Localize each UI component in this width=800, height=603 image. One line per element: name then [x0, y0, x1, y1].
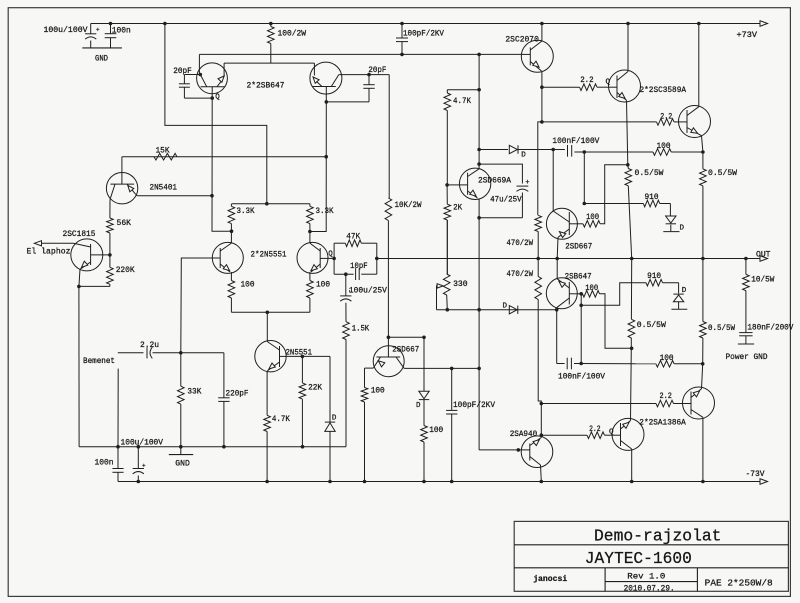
transistor Q2 2SB647 right: [310, 62, 342, 94]
svg-text:330: 330: [453, 280, 468, 289]
svg-text:2*2N5551: 2*2N5551: [251, 249, 287, 259]
wire input stub to gnd rail: [117, 369, 119, 447]
svg-text:+: +: [142, 463, 146, 470]
svg-text:Q: Q: [215, 93, 220, 101]
svg-text:910: 910: [647, 272, 661, 281]
svg-text:2.2: 2.2: [589, 425, 601, 434]
svg-text:56K: 56K: [117, 219, 132, 228]
svg-text:1.5K: 1.5K: [352, 325, 370, 334]
title block frame: [514, 521, 788, 591]
wire bias drop to 910 upper: [583, 152, 585, 204]
capacitor 100nF/100V upper: [553, 149, 565, 151]
svg-text:100pF/2KV: 100pF/2KV: [403, 29, 444, 39]
svg-text:470/2W: 470/2W: [507, 238, 534, 248]
resistor 22K: [301, 356, 303, 383]
svg-text:Q: Q: [606, 79, 611, 87]
svg-text:D: D: [682, 287, 687, 295]
OUT arrow: [760, 256, 768, 262]
diode D mid clamp: [423, 337, 425, 391]
resistor 0.5/5W upper-left: [627, 165, 630, 169]
resistor 33K: [180, 353, 182, 386]
trimmer 330: [446, 220, 448, 274]
wire emitter 2SC1815 to gnd rail: [79, 285, 110, 287]
wire bias mid y309: [437, 309, 557, 311]
svg-text:D: D: [416, 402, 421, 410]
wire -73V rail: [118, 481, 761, 483]
svg-text:100u/100V: 100u/100V: [44, 25, 88, 35]
capacitor 100pF/2KV snubber top: [400, 22, 404, 26]
svg-text:PAE 2*250W/8: PAE 2*250W/8: [705, 578, 773, 589]
transistor 2SC2070: [521, 40, 553, 72]
svg-text:Rev 1.0: Rev 1.0: [627, 572, 665, 582]
svg-text:2SA940: 2SA940: [510, 430, 538, 439]
svg-text:100n: 100n: [95, 459, 114, 468]
resistor 100 LTP left emitter: [230, 272, 232, 281]
svg-text:100nF/100V: 100nF/100V: [552, 136, 599, 146]
capacitor 100nF/100V lower: [556, 310, 558, 364]
wire Q2 base drop to LTP right collector: [310, 102, 326, 232]
transistor 2SC1815: [71, 239, 103, 271]
svg-text:20pF: 20pF: [173, 67, 192, 76]
wire driver base y86.7 + resistor 2.2: [542, 86, 580, 88]
svg-text:D: D: [521, 152, 526, 160]
capacitor 2.2u input coupling: [146, 347, 148, 358]
svg-text:2SB647: 2SB647: [565, 272, 592, 281]
capacitor 100pF/2KV lower: [451, 368, 453, 410]
svg-text:2SD667: 2SD667: [392, 345, 419, 354]
svg-text:100: 100: [241, 281, 255, 290]
svg-text:100pF/2KV: 100pF/2KV: [453, 400, 495, 410]
resistor 4.7K VAS emitter: [266, 372, 268, 416]
diode D bias top: [477, 148, 481, 152]
svg-text:100: 100: [316, 281, 330, 290]
transistor 2N5401: [106, 173, 137, 204]
svg-text:D: D: [680, 225, 685, 233]
resistor 4.7K bias top: [447, 89, 479, 91]
resistor 910 lower: [646, 279, 663, 286]
svg-text:OUT: OUT: [756, 251, 771, 260]
svg-text:2SC1815: 2SC1815: [63, 230, 96, 239]
svg-text:100u/100V: 100u/100V: [121, 437, 164, 447]
wire collector bus y54: [199, 53, 521, 55]
wire main bias column: [478, 54, 480, 168]
svg-text:4.7K: 4.7K: [453, 97, 471, 106]
wire VAS base: [286, 355, 330, 357]
svg-text:JAYTEC-1600: JAYTEC-1600: [585, 549, 692, 568]
svg-text:+: +: [96, 27, 100, 34]
svg-text:2.2: 2.2: [580, 76, 594, 85]
transistor Q4 2N5551 right: [297, 242, 328, 273]
svg-text:3.3K: 3.3K: [237, 207, 255, 216]
svg-text:10/5W: 10/5W: [751, 274, 774, 284]
svg-text:D: D: [332, 415, 337, 423]
svg-text:4.7K: 4.7K: [272, 415, 290, 424]
svg-text:Q: Q: [328, 251, 333, 259]
wire emitter drop 2SC2070: [541, 87, 543, 122]
svg-text:15K: 15K: [156, 147, 170, 156]
ground GND signal: [180, 447, 182, 455]
wire feedback 15K rail: [122, 156, 326, 158]
svg-text:janocsi: janocsi: [533, 574, 567, 584]
resistor 2K: [446, 185, 448, 204]
resistor 100 bottom-right emitter: [581, 363, 656, 365]
transistor 2N5551 VAS: [255, 341, 286, 372]
svg-text:Power GND: Power GND: [726, 353, 768, 362]
resistor 100 LTP right emitter: [309, 272, 311, 281]
svg-text:100: 100: [371, 387, 385, 396]
capacitor 10pF: [334, 273, 354, 275]
+73V arrow: [760, 21, 768, 27]
trimmer wiper arrow: [437, 284, 443, 288]
svg-text:100: 100: [429, 426, 443, 435]
-73V arrow: [760, 479, 768, 485]
capacitor 100u/25V: [345, 274, 347, 296]
svg-text:0.5/5W: 0.5/5W: [708, 323, 735, 333]
transistor Q1 2SB647 left: [197, 63, 228, 94]
wire input open end: [118, 352, 144, 354]
svg-text:2SC2070: 2SC2070: [505, 36, 539, 45]
diode D VAS clamp: [329, 356, 331, 422]
svg-text:100nF/100V: 100nF/100V: [558, 371, 605, 381]
svg-text:33K: 33K: [187, 388, 201, 397]
capacitor 180nF/200V zobel: [745, 291, 747, 333]
svg-text:GND: GND: [95, 55, 108, 64]
wire base riser to LTP: [181, 258, 213, 353]
resistor 0.5/5W lower-left: [630, 259, 632, 320]
resistor 100 lower driver emitter: [364, 368, 366, 387]
resistor 220K: [109, 255, 111, 267]
resistor 10/5W output zobel: [745, 259, 747, 275]
wire emitter link y62.6: [224, 62, 314, 64]
svg-text:470/2W: 470/2W: [507, 269, 534, 279]
resistor 910 upper: [584, 203, 643, 205]
svg-text:Demo-rajzolat: Demo-rajzolat: [594, 526, 722, 545]
svg-text:0.5/5W: 0.5/5W: [708, 168, 737, 178]
svg-text:2.2u: 2.2u: [140, 341, 159, 350]
svg-text:100: 100: [585, 284, 598, 293]
transistor 2SA1386A right: [683, 387, 715, 419]
svg-text:2SD669A: 2SD669A: [478, 176, 511, 185]
wire lower driver collector: [404, 367, 479, 369]
wire top-left feed: [163, 22, 167, 26]
transistor 2SD667 lower driver: [373, 346, 404, 377]
capacitor 100n bottom: [117, 447, 119, 469]
diode D thermal lower: [678, 283, 680, 294]
resistor 100 upper driver collector: [578, 223, 584, 225]
resistor 3.3K right: [309, 204, 311, 207]
resistor 100 top-right emitter: [653, 149, 671, 156]
svg-text:2010.07.29.: 2010.07.29.: [624, 584, 675, 593]
wire OUT rail: [377, 258, 761, 260]
svg-text:100/2W: 100/2W: [278, 28, 307, 38]
svg-text:100n: 100n: [112, 27, 131, 36]
svg-text:0.5/5W: 0.5/5W: [635, 168, 664, 178]
resistor 0.5/5W upper-right: [702, 152, 704, 169]
svg-text:-73V: -73V: [746, 470, 765, 479]
svg-text:Bemenet: Bemenet: [83, 357, 115, 366]
svg-text:20pF: 20pF: [368, 66, 386, 75]
svg-text:2*2SC3589A: 2*2SC3589A: [640, 85, 687, 95]
wire lower output base y403 + resistor 2.2: [541, 403, 656, 405]
transistor Q 2SC3589A left: [609, 70, 641, 102]
svg-text:2*2SA1386A: 2*2SA1386A: [639, 418, 686, 428]
svg-text:2.2: 2.2: [660, 392, 672, 401]
svg-text:2N5401: 2N5401: [150, 184, 178, 193]
capacitor 100u/100V bottom: [137, 447, 139, 469]
svg-text:180nF/200V: 180nF/200V: [747, 323, 793, 333]
svg-text:10pF: 10pF: [350, 262, 368, 271]
svg-text:2*2SB647: 2*2SB647: [247, 80, 285, 90]
wire 3.3K top link: [232, 203, 310, 205]
svg-text:100u/25V: 100u/25V: [349, 285, 387, 295]
resistor 470/2W upper: [538, 122, 542, 215]
resistor 0.5/5W lower-right: [702, 259, 704, 322]
wire to El laphoz with arrow: [41, 242, 74, 244]
resistor 15K: [154, 153, 177, 160]
svg-text:22K: 22K: [308, 384, 322, 393]
ground GND top-left: [82, 47, 122, 49]
diode D mid bias: [509, 306, 517, 314]
svg-text:10K/2W: 10K/2W: [395, 200, 422, 210]
wire Q1 base drop to LTP left collector: [212, 98, 232, 231]
svg-text:GND: GND: [175, 459, 190, 468]
svg-text:47u/25V: 47u/25V: [490, 194, 522, 204]
transistor 2SD667 upper output driver: [546, 208, 577, 239]
svg-text:220K: 220K: [116, 266, 135, 275]
transistor Q3 2N5551 left: [212, 242, 243, 273]
resistor 100 lower driver collector: [579, 292, 583, 296]
capacitor 100n input filter: [109, 22, 113, 26]
capacitor 20pF left: [184, 74, 200, 76]
svg-text:100: 100: [586, 213, 599, 222]
capacitor 100u/100V input filter: [90, 24, 92, 34]
diode D thermal upper: [669, 204, 671, 217]
resistor 100/2W: [269, 22, 273, 26]
svg-text:2SD667: 2SD667: [565, 242, 592, 251]
resistor 3.3K left: [228, 206, 235, 223]
transistor 2SD669A bias servo: [459, 168, 490, 199]
wire 2SA940 emitter link y434.7 + resistor 2.2: [541, 434, 587, 436]
svg-text:100: 100: [657, 142, 671, 151]
svg-text:El laphoz: El laphoz: [27, 247, 71, 257]
resistor 470/2W lower: [537, 259, 539, 277]
transistor Q 2SA1386A left: [612, 418, 644, 450]
transistor 2SB647 lower output driver: [546, 278, 577, 309]
wire signal ground rail: [79, 446, 346, 448]
wire LTP emitters join: [231, 311, 310, 313]
resistor 100 mid clamp: [421, 426, 428, 443]
resistor 56K: [107, 218, 114, 233]
wire +73V rail: [91, 23, 761, 25]
resistor 1.5K: [343, 322, 350, 340]
wire lower bias drop: [580, 294, 582, 306]
transistor 2SA940: [521, 436, 553, 468]
capacitor 220pF: [181, 352, 224, 354]
svg-text:2.2: 2.2: [660, 113, 672, 122]
svg-text:47K: 47K: [346, 233, 360, 242]
svg-text:+: +: [525, 179, 529, 187]
capacitor 47u/25V with box: [477, 162, 481, 166]
svg-text:220pF: 220pF: [226, 390, 249, 399]
svg-text:910: 910: [645, 193, 659, 202]
svg-text:2K: 2K: [453, 204, 462, 213]
wire Q2 collector to 20pF: [339, 74, 389, 76]
svg-text:D: D: [503, 302, 508, 310]
wire 10K/2W to clamp chain: [388, 336, 424, 338]
svg-text:100: 100: [660, 354, 674, 363]
svg-text:3.3K: 3.3K: [316, 207, 334, 216]
transistor 2SC3589A right: [679, 106, 711, 138]
svg-text:0.5/5W: 0.5/5W: [637, 320, 666, 330]
capacitor 20pF right: [368, 75, 370, 85]
wire lower driver base y121.4 + resistor 2.2: [542, 121, 657, 123]
resistor 47K: [345, 240, 361, 247]
svg-text:+73V: +73V: [737, 31, 758, 40]
wire 47K box: [328, 257, 334, 259]
resistor 10K/2W: [388, 75, 390, 198]
